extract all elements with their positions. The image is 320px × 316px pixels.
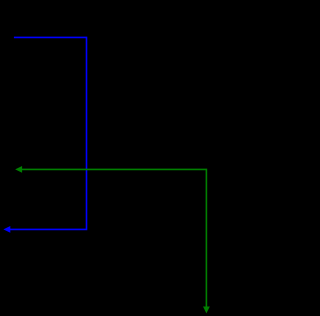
wire blue signal path bbox=[10, 37, 87, 229]
green arrowhead (left) bbox=[15, 166, 22, 173]
wire green signal path bbox=[22, 169, 207, 307]
blue arrowhead (left) bbox=[3, 226, 10, 233]
green arrowhead (down) bbox=[203, 307, 210, 314]
